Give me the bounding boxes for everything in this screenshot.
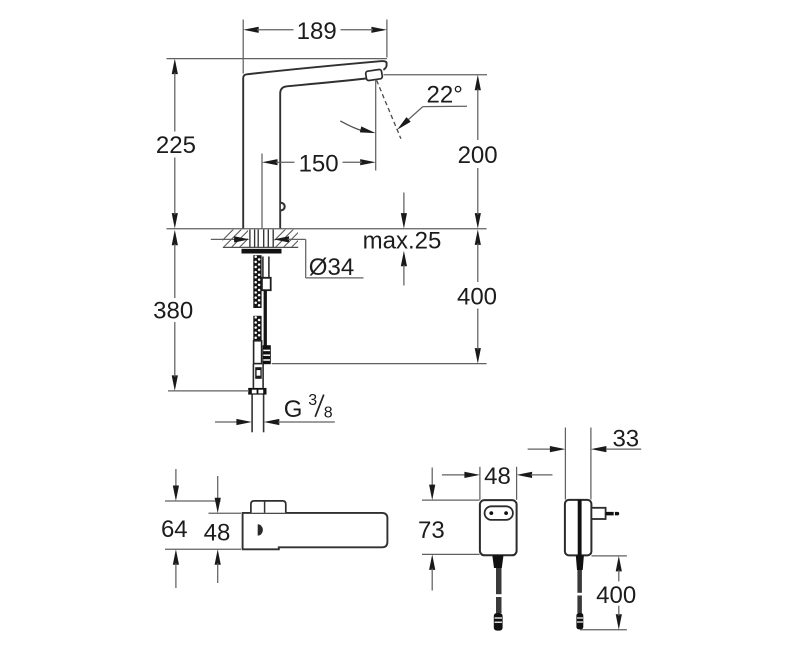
dim 64 [175, 469, 177, 487]
supply pipe lower section [252, 364, 254, 388]
svg-text:73: 73 [418, 517, 445, 544]
svg-text:400: 400 [596, 582, 636, 609]
hose end nut [248, 388, 266, 395]
mounting gasket under deck [242, 249, 282, 254]
braided supply hose [253, 255, 261, 308]
adapter dim 400 [616, 556, 622, 572]
adapter dim 33 [528, 448, 551, 450]
adapter dim 400 extension lines [592, 555, 627, 557]
top extension line (faucet max height) [167, 58, 387, 60]
top view: spout body outline [243, 513, 388, 549]
power cable wire [264, 290, 267, 346]
svg-text:48: 48 [204, 519, 231, 546]
22deg leader [423, 105, 467, 107]
adapter side: shell seam band [578, 500, 582, 556]
svg-text:150: 150 [299, 150, 339, 177]
dim 189 extension line left [242, 20, 244, 74]
dim 48 (spout width) [217, 476, 219, 499]
faucet spout: underside and right body edge [280, 79, 366, 229]
dim 150 extension line left (body centerline) [261, 154, 263, 229]
adapter dim 73 [431, 468, 433, 487]
adapter dim 48 [442, 474, 466, 476]
adapter dim 48 extension lines [479, 467, 481, 500]
deck section hatching right [268, 229, 310, 247]
sensor knob on faucet body [281, 203, 285, 211]
adapter front: cable connector [494, 613, 503, 631]
dim 380 bottom extension line [168, 390, 249, 392]
dim 189 extension line right [386, 20, 388, 58]
pipe fitting detail [255, 367, 262, 379]
adapter side: cable connector [576, 613, 583, 629]
dim 400 bottom extension (cable end) [272, 363, 487, 365]
svg-text:Ø34: Ø34 [309, 254, 354, 281]
G3/8 threaded pipe end [251, 395, 253, 433]
svg-text:22°: 22° [427, 82, 463, 109]
dim 225 [172, 59, 178, 75]
cable sleeve connector [262, 278, 271, 290]
svg-text:189: 189 [297, 18, 337, 45]
deck section hatching left [216, 229, 258, 247]
svg-text:max.25: max.25 [363, 228, 442, 255]
svg-text:3: 3 [308, 392, 317, 409]
water flow arc arrow [340, 121, 363, 131]
deck underside line [223, 246, 298, 248]
adapter side: cable [577, 570, 582, 593]
svg-text:400: 400 [457, 284, 497, 311]
power cable plug [263, 345, 271, 364]
adapter front: body [480, 500, 517, 555]
svg-text:380: 380 [153, 298, 193, 325]
svg-text:64: 64 [161, 516, 188, 543]
power cable tube below deck [262, 257, 264, 278]
dim O34 leader arrows at shank [211, 238, 236, 240]
dim 380 [172, 230, 178, 246]
adapter dim 73 extension lines [422, 499, 480, 501]
dim max.25 [403, 193, 405, 215]
svg-text:8: 8 [324, 404, 333, 421]
top view: base tab [251, 501, 286, 513]
adapter side: plug base [591, 508, 605, 519]
22deg dashed spray direction line [377, 80, 401, 138]
dim 400 (cable) [475, 229, 481, 245]
dim 189 [243, 27, 259, 33]
hose plain section [254, 341, 262, 364]
adapter side: body [565, 500, 592, 556]
adapter front: strain relief [492, 555, 503, 568]
adapter side: strain relief [576, 555, 584, 570]
svg-text:33: 33 [612, 425, 639, 452]
svg-text:G: G [284, 396, 303, 423]
dim 200 top extension line [384, 74, 488, 76]
faucet spout: top and left outline [243, 61, 386, 228]
svg-text:48: 48 [484, 463, 511, 490]
dim G3/8 arrows [215, 421, 238, 423]
threaded shank through deck [249, 230, 251, 248]
dim 200 [475, 75, 481, 91]
svg-text:200: 200 [458, 142, 498, 169]
dim 150 [262, 159, 278, 165]
top view extension lines [165, 500, 221, 502]
deck surface line [167, 228, 487, 230]
adapter front: euro socket recess [485, 506, 513, 520]
faucet aerator outlet [365, 69, 382, 81]
svg-text:225: 225 [156, 132, 196, 159]
adapter side: plug pin [606, 512, 620, 516]
top view: sensor window [258, 524, 263, 535]
dim 150 extension line right (outlet centerline) [375, 81, 377, 171]
O34 leader: vertical + underline [305, 239, 307, 278]
adapter front: cable [496, 568, 502, 594]
adapter dim 33 extension lines [564, 428, 566, 500]
